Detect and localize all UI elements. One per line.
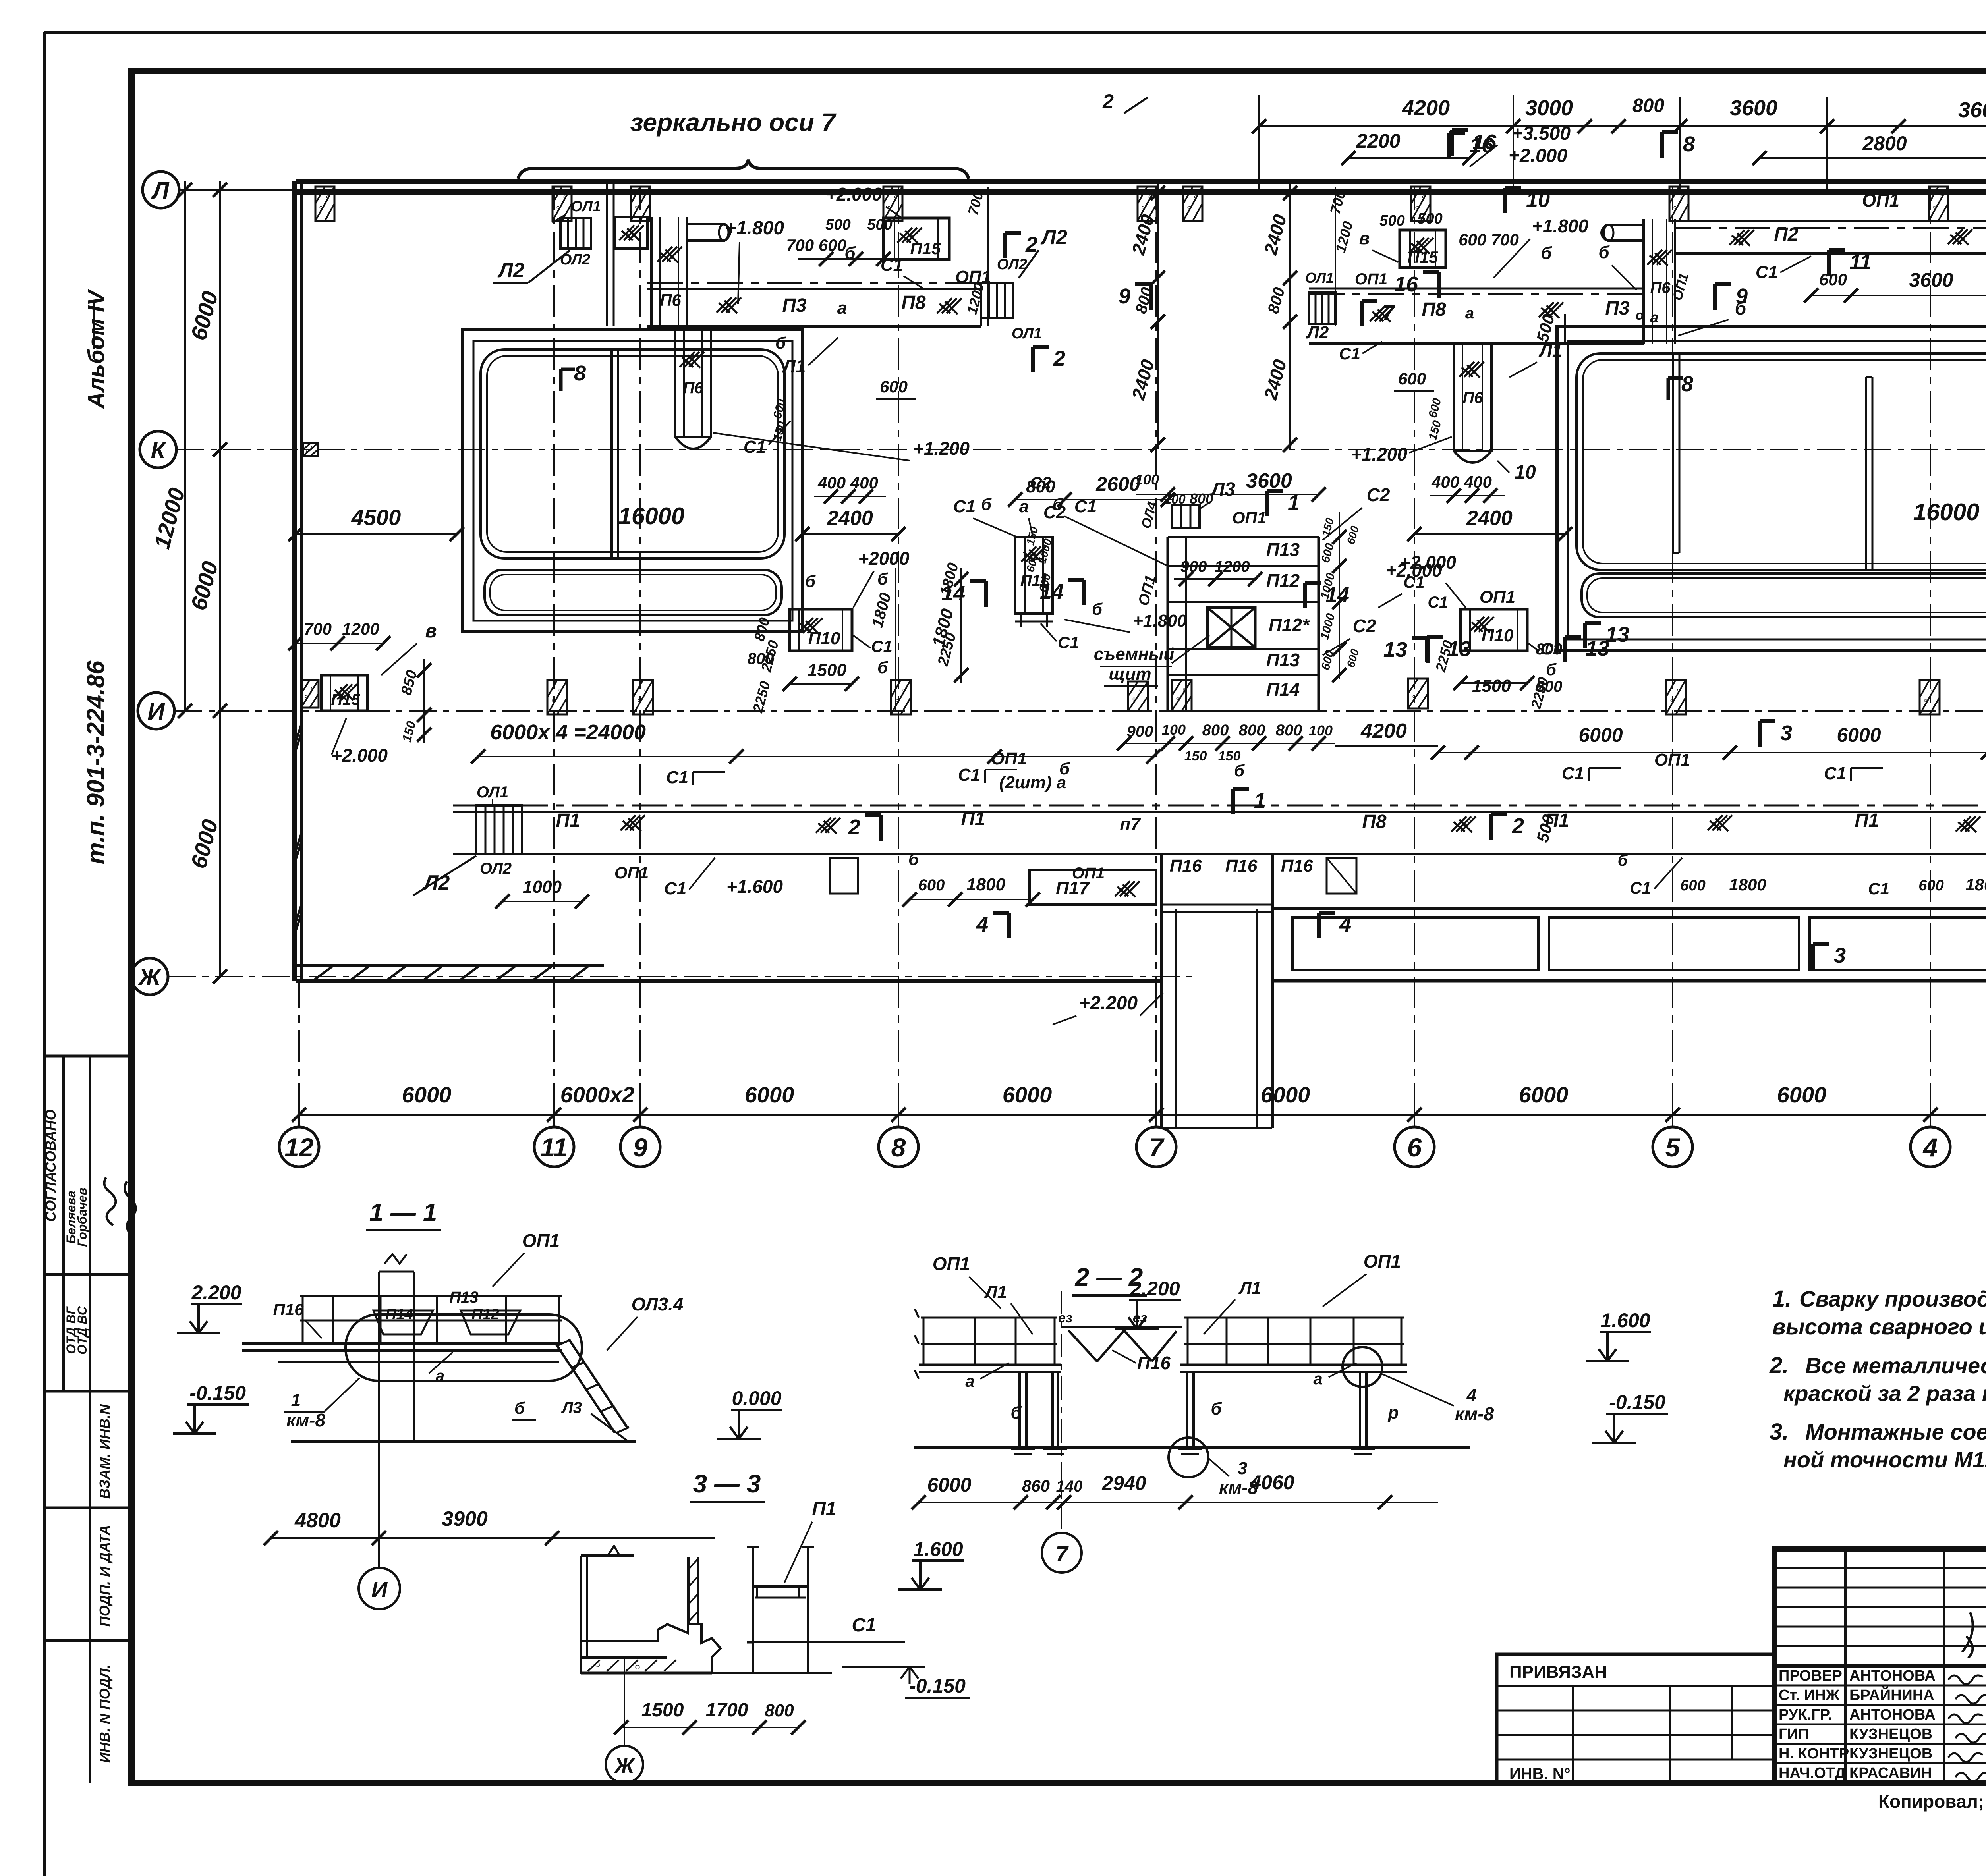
svg-text:Н. КОНТР: Н. КОНТР [1779, 1745, 1849, 1762]
svg-text:1200: 1200 [342, 620, 379, 638]
vertical dims 2400-800 central-left [1157, 183, 1159, 449]
svg-text:ОП1: ОП1 [1232, 508, 1266, 527]
svg-text:-0.150: -0.150 [909, 1675, 966, 1697]
platform band P2 right top [1675, 220, 1986, 222]
hatched columns on I axis [547, 680, 567, 714]
platform P11 left of cluster [1015, 537, 1053, 614]
section 1-1 deck [242, 1342, 562, 1345]
svg-text:С1: С1 [1630, 878, 1651, 897]
svg-text:4: 4 [976, 913, 988, 936]
svg-text:б: б [1598, 243, 1610, 262]
svg-text:400 400: 400 400 [817, 473, 878, 492]
svg-text:т.п. 901-3-224.86: т.п. 901-3-224.86 [82, 660, 110, 864]
axis line L [179, 189, 1986, 191]
svg-text:3600: 3600 [1958, 98, 1986, 122]
svg-text:П6: П6 [1462, 389, 1483, 407]
svg-text:1000: 1000 [523, 877, 562, 897]
svg-text:П8: П8 [1422, 299, 1446, 320]
svg-text:3600: 3600 [1730, 96, 1777, 120]
left settling tank 16000 [463, 330, 802, 631]
svg-text:(2шт) а: (2шт) а [999, 773, 1066, 792]
svg-text:П6: П6 [1650, 279, 1671, 297]
svg-text:П1: П1 [1545, 810, 1569, 831]
svg-text:БРАЙНИНА: БРАЙНИНА [1849, 1686, 1934, 1704]
svg-text:С1: С1 [744, 437, 766, 457]
svg-text:150: 150 [1319, 517, 1336, 538]
svg-text:П15: П15 [331, 691, 360, 708]
svg-text:2400: 2400 [1260, 357, 1291, 402]
svg-text:П10: П10 [1482, 626, 1514, 645]
svg-text:С1: С1 [881, 255, 903, 275]
svg-text:8: 8 [1683, 132, 1695, 156]
svg-text:800: 800 [1536, 678, 1563, 695]
svg-text:150: 150 [1426, 419, 1444, 442]
section flags 9 central [1149, 284, 1153, 310]
svg-text:10: 10 [1515, 462, 1536, 483]
svg-text:П13: П13 [1266, 650, 1300, 670]
svg-text:6000: 6000 [1578, 724, 1623, 746]
platform P15 upper-left [883, 218, 949, 259]
svg-text:6000: 6000 [186, 817, 223, 871]
axis circle I [138, 693, 174, 729]
svg-text:860: 860 [1022, 1476, 1050, 1495]
section 3-3 axis circle Zh [606, 1746, 643, 1783]
svg-text:П15: П15 [1408, 248, 1439, 266]
svg-text:ОЛ2: ОЛ2 [480, 860, 512, 877]
svg-text:П1: П1 [1855, 810, 1879, 831]
svg-text:б: б [1618, 852, 1628, 869]
svg-text:ОП1: ОП1 [1135, 573, 1159, 608]
svg-text:С1: С1 [1868, 879, 1889, 898]
svg-text:1.600: 1.600 [913, 1538, 963, 1560]
svg-text:краской за 2 раза по: краской за 2 раза по ГОСТ 695-77. [1783, 1381, 1986, 1406]
svg-text:800: 800 [1202, 722, 1229, 739]
svg-text:700: 700 [304, 620, 332, 638]
section 3-3 foundation [581, 1624, 721, 1673]
svg-text:ОЛ2: ОЛ2 [997, 256, 1027, 273]
svg-text:140: 140 [1056, 1478, 1083, 1495]
svg-text:2400: 2400 [1260, 212, 1291, 257]
svg-text:3: 3 [1834, 944, 1846, 967]
svg-text:П13: П13 [449, 1289, 478, 1306]
svg-text:2: 2 [1512, 814, 1524, 838]
svg-text:12: 12 [284, 1133, 314, 1162]
svg-text:2250: 2250 [758, 639, 782, 674]
svg-text:б: б [844, 243, 856, 263]
svg-text:+2000: +2000 [858, 548, 910, 569]
svg-text:6000: 6000 [402, 1082, 452, 1107]
svg-text:11: 11 [541, 1133, 568, 1162]
svg-text:С1: С1 [664, 879, 686, 898]
svg-text:700 600: 700 600 [786, 236, 846, 255]
stamp signatures [1948, 1675, 1983, 1684]
svg-text:8: 8 [1681, 372, 1693, 396]
svg-text:П16: П16 [273, 1300, 304, 1319]
svg-text:2400: 2400 [827, 507, 873, 530]
svg-text:+3.500: +3.500 [1512, 123, 1571, 144]
svg-text:П16: П16 [1137, 1353, 1171, 1373]
svg-text:100: 100 [1162, 722, 1186, 738]
svg-text:+1.600: +1.600 [726, 876, 783, 897]
svg-text:4200: 4200 [1402, 96, 1450, 120]
svg-text:АНТОНОВА: АНТОНОВА [1849, 1706, 1936, 1723]
svg-text:а: а [1313, 1369, 1322, 1388]
right band start ladder [1309, 293, 1335, 324]
svg-text:П6: П6 [683, 379, 703, 397]
svg-text:АНТОНОВА: АНТОНОВА [1849, 1668, 1936, 1684]
svg-text:0.000: 0.000 [732, 1387, 781, 1409]
grid vertical axis lines [553, 187, 555, 1115]
svg-text:С1: С1 [958, 765, 980, 785]
svg-text:ОП1: ОП1 [991, 749, 1027, 768]
svg-text:Л1: Л1 [1238, 1278, 1262, 1298]
svg-text:7: 7 [1055, 1541, 1069, 1566]
svg-text:1800: 1800 [966, 875, 1005, 894]
svg-text:3600: 3600 [1246, 469, 1292, 492]
svg-text:С1: С1 [953, 497, 976, 516]
svg-text:С2: С2 [1030, 473, 1051, 492]
svg-text:ОП1: ОП1 [614, 863, 649, 882]
svg-text:4500: 4500 [351, 505, 401, 530]
svg-text:Л2: Л2 [497, 259, 525, 282]
svg-text:С1: С1 [871, 637, 893, 656]
section 3-3 dims [621, 1727, 798, 1728]
privyazan box [1497, 1654, 1775, 1783]
svg-text:3 — 3: 3 — 3 [693, 1469, 761, 1498]
svg-text:б: б [1541, 243, 1552, 263]
svg-text:600: 600 [1319, 649, 1337, 672]
section 1-1 dims [271, 1537, 715, 1539]
svg-text:ОП1: ОП1 [1654, 750, 1690, 770]
svg-text:2400: 2400 [1466, 507, 1513, 530]
ladder OL2 left cluster [560, 218, 591, 249]
svg-text:600 700: 600 700 [1459, 230, 1519, 249]
svg-text:1800: 1800 [1965, 875, 1986, 894]
dim verticals top right half [1258, 95, 1260, 190]
vertical dim 700-1200 left band [987, 187, 989, 326]
section flags 2 left group [1003, 233, 1007, 258]
svg-text:1 — 1: 1 — 1 [369, 1198, 437, 1227]
svg-text:б: б [1092, 600, 1103, 618]
svg-text:2: 2 [848, 815, 860, 839]
svg-text:П10: П10 [808, 629, 840, 648]
svg-text:2800: 2800 [1862, 132, 1907, 154]
svg-text:Ст. ИНЖ: Ст. ИНЖ [1779, 1687, 1840, 1704]
svg-text:С1: С1 [1058, 633, 1079, 652]
section 2-2 grid7 axis line [1061, 1291, 1062, 1534]
building bottom wall with hatch [296, 964, 604, 967]
section 1-1 ladder OL34 [556, 1344, 615, 1433]
svg-text:7: 7 [1149, 1133, 1165, 1162]
svg-text:800: 800 [765, 1701, 794, 1720]
section 2-2 dims [919, 1502, 1438, 1503]
svg-text:С2: С2 [1043, 503, 1066, 522]
axis line Zh [168, 976, 1192, 977]
outer sheet border [43, 32, 46, 1876]
svg-text:П12: П12 [1266, 570, 1300, 591]
svg-text:4: 4 [1922, 1133, 1938, 1162]
svg-text:2: 2 [1053, 347, 1065, 371]
svg-text:6000: 6000 [1519, 1082, 1569, 1107]
svg-text:5: 5 [1665, 1133, 1681, 1162]
vertical dim 2250-1800 left [895, 568, 896, 711]
svg-text:б: б [1010, 1403, 1022, 1422]
svg-text:П16: П16 [1281, 856, 1313, 876]
svg-text:100: 100 [1309, 722, 1333, 739]
grid bottom dimension chain [299, 1114, 1986, 1116]
section 2-2 right deck [1180, 1364, 1407, 1366]
svg-text:2400: 2400 [1128, 212, 1158, 257]
rooms row right of shaft [1272, 907, 1986, 910]
platform P15 upper-right [1400, 230, 1446, 268]
svg-text:км-8: км-8 [1455, 1403, 1494, 1424]
svg-text:Ж: Ж [613, 1754, 636, 1778]
section 1-1 weld region KM-8 [346, 1314, 582, 1381]
pipe with cap on P6 strip [687, 223, 725, 225]
svg-text:П1: П1 [812, 1498, 836, 1519]
svg-text:в: в [1359, 229, 1370, 248]
svg-text:600: 600 [1426, 397, 1444, 419]
svg-text:6000: 6000 [1261, 1082, 1310, 1107]
svg-text:+2.000: +2.000 [826, 184, 882, 205]
svg-text:П13: П13 [1266, 539, 1300, 560]
svg-text:800: 800 [1239, 722, 1265, 739]
svg-text:13: 13 [1383, 638, 1407, 662]
svg-text:П16: П16 [1225, 856, 1258, 876]
svg-text:1500: 1500 [808, 660, 846, 680]
svg-text:12000: 12000 [149, 485, 189, 552]
svg-text:б: б [805, 572, 816, 591]
svg-text:600: 600 [1345, 648, 1361, 669]
svg-text:а: а [1465, 305, 1474, 322]
svg-text:2400: 2400 [1128, 357, 1158, 402]
svg-text:ез: ез [1058, 1310, 1072, 1326]
ladder L2 right of band [981, 283, 1013, 318]
P6 strip left from wall [650, 217, 653, 326]
svg-text:КУЗНЕЦОВ: КУЗНЕЦОВ [1849, 1726, 1932, 1743]
svg-text:ОП1: ОП1 [522, 1230, 560, 1251]
P6 strip right [1642, 219, 1645, 344]
svg-text:С2: С2 [1367, 484, 1390, 505]
svg-text:1500: 1500 [1472, 676, 1511, 696]
svg-text:б: б [1546, 660, 1557, 679]
svg-text:6: 6 [1407, 1133, 1422, 1162]
svg-text:Копировал;: Копировал; [1878, 1791, 1984, 1812]
svg-text:И: И [147, 698, 165, 725]
svg-text:8: 8 [574, 361, 586, 385]
section 2-2 axis circle 7 [1042, 1533, 1082, 1573]
top wall column blocks [315, 187, 334, 221]
svg-text:+1.800: +1.800 [725, 218, 784, 239]
svg-text:ИНВ. N°: ИНВ. N° [1509, 1765, 1571, 1783]
svg-text:ОЛ1: ОЛ1 [477, 784, 508, 801]
svg-text:1.: 1. [1772, 1286, 1791, 1312]
svg-text:800: 800 [1265, 286, 1289, 316]
svg-text:2.: 2. [1769, 1353, 1789, 1378]
svg-text:ОЛ1: ОЛ1 [571, 198, 601, 215]
svg-text:ез: ез [1133, 1310, 1147, 1326]
svg-text:800: 800 [1276, 722, 1302, 739]
svg-text:Л2: Л2 [1040, 226, 1068, 249]
svg-text:600: 600 [771, 398, 788, 420]
svg-text:3900: 3900 [442, 1507, 488, 1531]
svg-text:а: а [837, 298, 847, 318]
svg-text:ОП1: ОП1 [1355, 270, 1387, 288]
svg-text:б: б [1211, 1399, 1222, 1419]
svg-text:СОГЛАСОВАНО: СОГЛАСОВАНО [43, 1109, 59, 1222]
svg-text:4: 4 [1466, 1386, 1476, 1405]
section 1-1 base line [291, 1440, 636, 1443]
svg-text:С1: С1 [666, 768, 688, 787]
svg-text:150: 150 [399, 720, 419, 744]
svg-text:9: 9 [1119, 284, 1130, 308]
svg-text:600: 600 [1319, 542, 1337, 564]
svg-text:600: 600 [1680, 877, 1705, 894]
svg-text:КРАСАВИН: КРАСАВИН [1849, 1765, 1932, 1781]
svg-text:2.200: 2.200 [191, 1282, 241, 1304]
svg-text:6000: 6000 [186, 289, 223, 343]
svg-text:+2.200: +2.200 [1079, 993, 1138, 1014]
svg-text:600: 600 [1398, 369, 1426, 388]
axis line I [174, 710, 1986, 712]
platform P10 right [1461, 609, 1527, 651]
svg-text:п7: п7 [1120, 814, 1141, 834]
section 1-1 railing [300, 1295, 562, 1297]
svg-text:500: 500 [867, 216, 892, 233]
vertical dims 2400-800 central-right [1289, 183, 1291, 449]
hatched columns flanking P14 [1128, 681, 1148, 711]
svg-text:а: а [965, 1372, 974, 1390]
door box with hatch left [615, 217, 647, 249]
vertical dim 700-1200 right band [1335, 187, 1336, 326]
small clip boxes below band [830, 858, 858, 894]
svg-text:П2: П2 [1774, 224, 1799, 245]
svg-text:а: а [436, 1367, 444, 1385]
svg-text:С1: С1 [1428, 594, 1448, 611]
svg-text:П8: П8 [1362, 811, 1387, 832]
platform band P8-P3 right [1309, 293, 1644, 295]
svg-text:в: в [425, 621, 437, 642]
svg-text:ОП1: ОП1 [933, 1253, 970, 1274]
svg-text:9: 9 [633, 1133, 648, 1162]
svg-text:П3: П3 [782, 295, 807, 316]
section 2-2 columns [1018, 1372, 1021, 1448]
axis circle K [140, 431, 176, 468]
svg-text:ИНВ. N ПОДЛ.: ИНВ. N ПОДЛ. [97, 1664, 113, 1763]
hanging platform P6 right lower [1454, 344, 1491, 451]
svg-text:3.: 3. [1770, 1419, 1789, 1445]
svg-text:1500: 1500 [641, 1700, 684, 1721]
svg-text:б: б [775, 334, 786, 352]
svg-text:+1.800: +1.800 [1133, 611, 1187, 631]
svg-text:б: б [877, 569, 888, 588]
section 1-1 axis circle I [359, 1568, 400, 1609]
svg-text:1: 1 [291, 1390, 301, 1410]
svg-text:С1: С1 [1540, 639, 1562, 658]
svg-text:+2.000: +2.000 [1509, 145, 1567, 166]
svg-text:600: 600 [1819, 270, 1847, 289]
top dimension chain row1 [1259, 125, 1986, 127]
svg-text:Л: Л [151, 177, 170, 204]
svg-text:3: 3 [1238, 1459, 1247, 1478]
section 2-2 base line [914, 1446, 1470, 1449]
svg-text:800: 800 [1632, 95, 1664, 116]
svg-text:б: б [877, 658, 888, 677]
left wall break hatches [294, 733, 301, 755]
svg-text:8: 8 [891, 1133, 906, 1162]
svg-text:10: 10 [1526, 188, 1550, 212]
svg-text:Л1: Л1 [782, 356, 806, 376]
svg-text:р: р [1388, 1403, 1399, 1422]
top dimension chain row2 [1348, 157, 1470, 159]
svg-text:И: И [371, 1577, 388, 1602]
svg-text:б: б [1234, 761, 1245, 780]
svg-text:1800: 1800 [1729, 875, 1766, 894]
P17 box below band [1030, 870, 1156, 905]
svg-text:ОЛ1: ОЛ1 [1305, 270, 1334, 286]
svg-text:С1: С1 [1824, 764, 1846, 783]
platform P10 left [790, 609, 852, 651]
svg-text:6000: 6000 [1837, 724, 1881, 746]
svg-text:-0.150: -0.150 [1609, 1391, 1665, 1413]
svg-text:+1.200: +1.200 [913, 438, 970, 459]
svg-text:С2: С2 [1353, 616, 1376, 636]
svg-text:б: б [908, 850, 919, 869]
svg-text:С1: С1 [1339, 344, 1360, 363]
svg-text:ОЛ1: ОЛ1 [1012, 325, 1042, 342]
svg-text:400 400: 400 400 [1431, 473, 1492, 491]
svg-text:1000: 1000 [1318, 612, 1337, 641]
svg-text:2600: 2600 [1095, 473, 1140, 495]
svg-text:П15: П15 [910, 239, 941, 258]
wall partition lines left cluster [606, 181, 608, 326]
svg-text:4800: 4800 [294, 1509, 341, 1532]
svg-text:съемный: съемный [1094, 645, 1175, 664]
svg-text:С1: С1 [852, 1615, 876, 1636]
svg-text:ной точности М12 ГОСТ 779: ной точности М12 ГОСТ 7798-70.* [1783, 1447, 1986, 1472]
svg-text:К: К [151, 437, 167, 463]
svg-text:а: а [1650, 309, 1658, 326]
svg-text:4060: 4060 [1250, 1471, 1294, 1494]
svg-text:ОП1: ОП1 [1364, 1251, 1401, 1272]
svg-text:6000: 6000 [1777, 1082, 1827, 1107]
svg-text:850: 850 [398, 668, 421, 697]
section 2-2 KM-8 circles [1169, 1438, 1208, 1477]
section 1-1 column [378, 1272, 380, 1442]
svg-text:Ж: Ж [137, 964, 162, 990]
svg-text:500: 500 [1533, 312, 1558, 344]
svg-text:Альбом IV: Альбом IV [83, 289, 109, 409]
long platform band P1 on I axis [453, 805, 1986, 807]
tank level dimension line 4500-2400 [296, 533, 457, 535]
svg-text:П3: П3 [1605, 298, 1630, 319]
svg-text:П12*: П12* [1269, 615, 1310, 635]
svg-text:16000: 16000 [1913, 499, 1980, 525]
svg-text:НАЧ.ОТД: НАЧ.ОТД [1779, 1765, 1845, 1781]
svg-text:Л2: Л2 [1306, 323, 1329, 342]
svg-text:б: б [981, 495, 992, 513]
svg-text:14: 14 [941, 581, 965, 605]
svg-text:П6: П6 [660, 291, 681, 309]
svg-text:150: 150 [1024, 525, 1041, 547]
svg-text:800: 800 [1190, 490, 1213, 507]
svg-text:600: 600 [918, 876, 945, 894]
svg-text:П14: П14 [385, 1306, 413, 1323]
svg-text:2: 2 [1102, 90, 1114, 112]
svg-text:КУЗНЕЦОВ: КУЗНЕЦОВ [1849, 1745, 1932, 1762]
svg-text:Л3: Л3 [1210, 479, 1235, 500]
svg-text:2.200: 2.200 [1130, 1278, 1180, 1300]
